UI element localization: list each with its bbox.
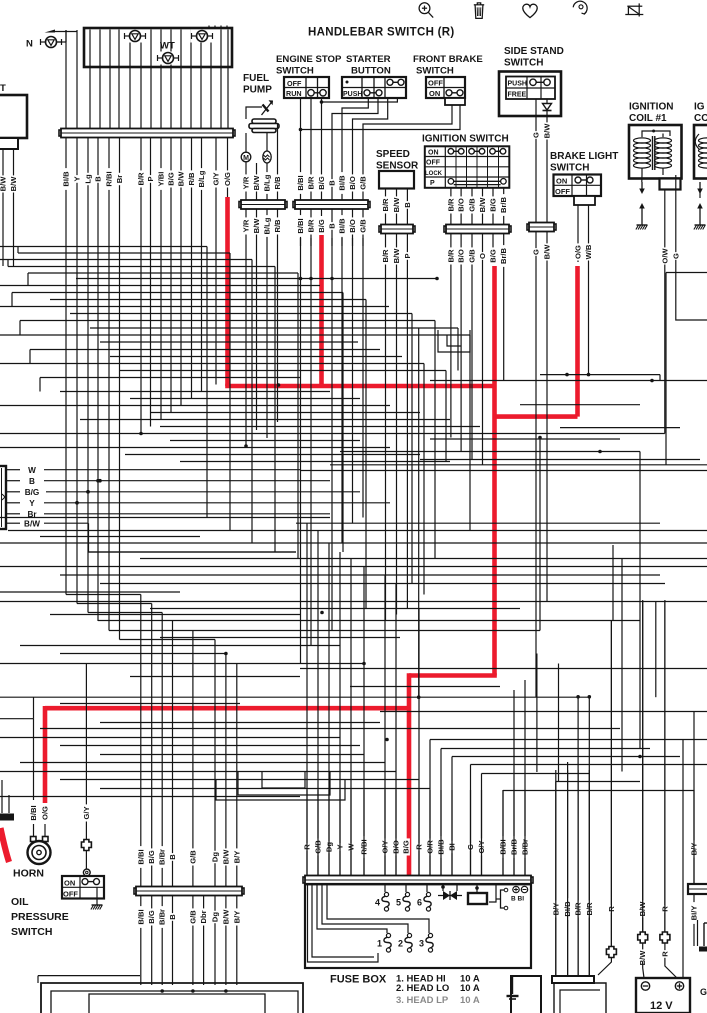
svg-text:B/W: B/W: [24, 519, 40, 528]
svg-text:Br/B: Br/B: [499, 247, 508, 264]
svg-text:B/G: B/G: [489, 249, 498, 263]
svg-text:B/O: B/O: [348, 176, 357, 190]
starter button box: [342, 77, 406, 98]
label B/G left: [25, 488, 40, 497]
wire B speed sensor: [406, 189, 408, 226]
svg-text:LOCK: LOCK: [425, 171, 443, 177]
svg-text:G/Y: G/Y: [212, 172, 221, 185]
wire cluster to connector: [190, 30, 192, 130]
bottom box outline 2: [51, 991, 298, 1013]
title HANDLEBAR SWITCH (R): [308, 27, 455, 39]
wire cluster to connector: [99, 30, 101, 130]
svg-text:B/O: B/O: [457, 249, 466, 263]
label B/O below bar: [348, 217, 357, 234]
label R battery below: [660, 950, 669, 958]
wire fusebox riser: [502, 791, 504, 876]
wire cb riser: [151, 604, 153, 811]
fusebox internal wire 10: [475, 884, 479, 893]
label O/W coil1: [660, 247, 669, 264]
wire mesh h: [160, 426, 480, 428]
svg-text:CO: CO: [694, 113, 707, 124]
junction dot: [98, 479, 102, 483]
wire mesh v g2: [150, 201, 152, 427]
wire B/W ign above: [482, 188, 484, 225]
label BI fusebox: [448, 841, 457, 853]
wire mesh v desc: [457, 328, 459, 371]
wire elbow left corner: [8, 247, 40, 392]
svg-text:B/Lg: B/Lg: [263, 174, 272, 191]
svg-text:IG: IG: [694, 102, 705, 113]
wire mesh v eg: [310, 238, 312, 646]
fuel pump body: [249, 119, 279, 133]
wire mesh v ss: [385, 268, 387, 621]
wire B/Y riser: [555, 782, 557, 977]
svg-text:BRAKE LIGHT: BRAKE LIGHT: [550, 151, 618, 162]
svg-text:B/R: B/R: [446, 198, 455, 212]
wire O/Y fusebox: [384, 790, 386, 876]
wire B/Br cb below: [161, 896, 163, 985]
wire cb riser: [192, 631, 194, 811]
wire mesh v ign: [460, 268, 462, 452]
svg-text:SWITCH: SWITCH: [276, 66, 314, 77]
label B/W cb above: [221, 848, 230, 865]
svg-text:O/G: O/G: [574, 245, 583, 259]
label P ss below: [403, 252, 412, 260]
wire G/B fusebox: [317, 790, 319, 876]
svg-text:OFF: OFF: [426, 160, 441, 167]
label Lg: [84, 173, 93, 185]
connector box left: [0, 95, 27, 149]
red wire B/G ignition vertical: [492, 266, 497, 676]
wire B/Br fusebox: [524, 790, 526, 876]
wire mesh v g2: [170, 201, 172, 413]
wire mesh v g2: [191, 201, 193, 399]
svg-text:G/B: G/B: [468, 198, 477, 212]
connector bar engine stop: [293, 200, 370, 209]
wire mesh h: [8, 266, 275, 268]
fusebox internal wire 6: [384, 884, 386, 892]
svg-text:B/R: B/R: [446, 249, 455, 263]
wire P ss below: [406, 234, 408, 268]
wire cluster to connector: [109, 30, 111, 130]
wire mesh v g2: [140, 201, 142, 434]
wire mesh h: [380, 711, 707, 713]
wire B/BI cb below: [140, 896, 142, 985]
fusebox internal wire 2: [312, 884, 374, 957]
wire mesh h: [300, 470, 707, 472]
wire mesh v G coil: [676, 290, 707, 320]
wire B/W fp: [256, 163, 258, 201]
svg-text:B/O: B/O: [348, 219, 357, 233]
wire mesh h: [77, 603, 152, 605]
wire B/G left bundle: [170, 138, 172, 201]
label HORN: [13, 868, 44, 880]
lamp turn-signal left: [124, 30, 147, 43]
wire frontbrake to G/B: [363, 104, 452, 201]
wire B/G ign above: [492, 188, 494, 225]
wire mesh v desc: [274, 267, 276, 553]
wire B/G ign below: [492, 234, 494, 262]
wire mesh h: [120, 370, 446, 372]
svg-text:P: P: [403, 253, 412, 258]
wire B/R right bottom: [577, 770, 579, 976]
label B/G fusebox: [402, 838, 411, 855]
red wire horizontal y386: [225, 384, 494, 389]
label B/O ign above: [457, 196, 466, 213]
wire G sidestand: [535, 116, 537, 223]
label B/Br cb below: [158, 906, 167, 928]
svg-text:B/W: B/W: [543, 123, 552, 139]
wire mesh h: [100, 722, 380, 724]
wire B cb above: [172, 810, 174, 887]
label B/Y right bottom: [551, 900, 560, 917]
wire cluster to connector: [170, 30, 172, 130]
label O/G: [223, 170, 232, 187]
svg-text:N: N: [26, 39, 33, 50]
svg-text:R/BI: R/BI: [105, 171, 114, 186]
wire mesh h: [30, 349, 380, 351]
connector bar right bottom: [552, 976, 594, 983]
wire mesh v low: [621, 559, 623, 772]
svg-text:3. HEAD LP: 3. HEAD LP: [396, 995, 449, 1006]
wire cluster to connector: [140, 30, 142, 130]
wire bottom U1: [238, 772, 330, 796]
svg-text:Dbr: Dbr: [199, 910, 208, 923]
wire B/G from left connector: [6, 491, 20, 493]
label B/R: [137, 170, 146, 187]
wire mesh v left: [65, 201, 67, 595]
svg-text:FRONT BRAKE: FRONT BRAKE: [413, 54, 483, 65]
ignition coil 2 label: [694, 102, 707, 125]
wire fusebox riser: [317, 531, 319, 876]
wire mesh v g2: [160, 201, 162, 420]
svg-text:O/G: O/G: [223, 172, 232, 186]
label B/G cb below: [147, 908, 156, 925]
wire O/R fusebox: [429, 790, 431, 876]
oil switch ground: [91, 899, 103, 910]
svg-text:Y/R: Y/R: [242, 219, 251, 232]
wire B/R ign below: [450, 234, 452, 268]
wire mesh h: [180, 461, 450, 463]
label P: [146, 175, 155, 183]
label B/G cb above: [147, 848, 156, 865]
label B/R below bar: [307, 217, 316, 234]
fuse box outline: [305, 884, 531, 968]
wire B below bar: [331, 210, 333, 247]
wire starter to B: [332, 98, 378, 201]
svg-text:Dg: Dg: [211, 852, 220, 862]
label B/G ign above: [489, 196, 498, 213]
wire mesh h: [0, 433, 665, 435]
svg-text:Y: Y: [29, 499, 35, 508]
wire mesh v desc: [297, 273, 299, 559]
svg-text:Br/B: Br/B: [499, 196, 508, 213]
svg-text:4: 4: [375, 898, 380, 908]
wire mesh v ss: [396, 268, 398, 615]
wire B/W from left connector: [6, 522, 20, 524]
side stand diode: [536, 99, 552, 116]
coil2 spark arrow down: [697, 182, 703, 194]
wire R battery: [660, 600, 670, 958]
red wire O/G left vertical: [225, 197, 230, 386]
wire mesh v fp: [266, 246, 268, 438]
wire P left bundle: [150, 138, 152, 201]
wire left outer 2: [76, 30, 78, 129]
wire B/BI horn stub: [33, 824, 35, 838]
wire mesh h: [300, 668, 707, 670]
svg-text:Y/BI: Y/BI: [157, 172, 166, 187]
svg-text:B/W: B/W: [392, 197, 401, 213]
wire Br/B ign above: [503, 188, 505, 225]
fuse 6: [417, 892, 431, 911]
label G/B cb above: [188, 848, 197, 865]
svg-text:STARTER: STARTER: [346, 54, 391, 65]
wire R fusebox: [418, 790, 420, 876]
instrument cluster box: [84, 28, 232, 67]
wire mesh h: [100, 754, 364, 756]
label R fusebox: [303, 843, 312, 851]
wire bottom U3: [262, 772, 305, 789]
wire B/W cb below: [225, 896, 227, 985]
svg-text:W/B: W/B: [584, 244, 593, 259]
label B/G: [167, 170, 176, 187]
label B/W ss below: [392, 247, 401, 264]
wire fusebox riser: [451, 757, 453, 876]
label B/BI cb above: [136, 846, 145, 868]
wire fusebox riser: [470, 765, 472, 876]
svg-text:BI/B: BI/B: [338, 218, 347, 234]
wire mesh h: [0, 771, 396, 773]
fuse 1: [377, 933, 391, 952]
wire stubs above cluster: [209, 26, 227, 30]
fuse 5: [396, 892, 410, 911]
label G/B above bar: [359, 174, 368, 191]
svg-text:G/B: G/B: [468, 249, 477, 263]
lamp WT: [157, 52, 180, 65]
wire BI/B fusebox: [440, 790, 442, 876]
wire B/O fusebox: [395, 790, 397, 876]
wire mesh h: [556, 781, 640, 783]
svg-text:HANDLEBAR SWITCH (R): HANDLEBAR SWITCH (R): [308, 27, 455, 39]
svg-text:B: B: [328, 180, 337, 186]
wire mesh v desc: [206, 247, 208, 518]
svg-text:G/B: G/B: [188, 910, 197, 924]
right edge connector bar: [688, 884, 707, 894]
wire mesh v eg: [362, 238, 364, 518]
oil switch terminal: [83, 869, 90, 876]
wire mesh h: [430, 380, 707, 382]
label Br left: [27, 510, 37, 519]
wire mesh v fp: [256, 246, 258, 430]
fusebox internal wire 1: [308, 884, 379, 962]
wire B/Lg left bundle: [201, 138, 203, 201]
wire starter to BI/B: [342, 98, 368, 201]
svg-text:O: O: [478, 253, 487, 259]
wire fusebox riser: [395, 584, 397, 876]
label G/B below bar: [359, 217, 368, 234]
connector bar speed sensor: [379, 225, 415, 234]
wire G/B ign above: [471, 188, 473, 225]
svg-text:G/B: G/B: [188, 850, 197, 864]
svg-text:OFF: OFF: [63, 889, 78, 898]
label Y/BI: [157, 168, 166, 190]
label G/B cb below: [188, 908, 197, 925]
svg-text:B/G: B/G: [317, 219, 326, 233]
wire W bus: [44, 469, 300, 471]
fuse 2: [398, 933, 412, 952]
svg-text:B/Lg: B/Lg: [263, 217, 272, 234]
wire Y/R below: [245, 210, 247, 247]
wire B/G bus: [46, 490, 360, 494]
wire mesh v ign: [503, 268, 505, 381]
junction dot: [385, 738, 389, 742]
svg-text:ON: ON: [429, 89, 440, 98]
wire mesh h: [666, 272, 707, 274]
wire mesh h: [540, 374, 660, 376]
front brake switch box: [426, 77, 465, 105]
svg-text:M: M: [243, 155, 249, 162]
label HEAD HI: [396, 974, 480, 985]
junction dot: [598, 450, 602, 454]
label STARTER BUTTON: [346, 54, 391, 77]
svg-text:B/W: B/W: [221, 909, 230, 925]
wire G coil1: [675, 175, 677, 290]
fusebox bracket: [501, 888, 508, 910]
svg-text:B: B: [328, 223, 337, 229]
label HEAD LO: [396, 983, 480, 994]
wire B/W to battery: [643, 962, 644, 978]
svg-text:G: G: [671, 253, 680, 259]
svg-text:Y/R: Y/R: [242, 176, 251, 189]
wire B/R right bottom: [588, 770, 590, 976]
label G below: [532, 248, 541, 256]
wire elbow ign B: [447, 335, 461, 346]
wire BI fusebox: [451, 790, 453, 876]
toolbar heart icon: [523, 4, 537, 17]
wire B/BI cb above: [140, 810, 142, 887]
wire B/W left bundle: [180, 138, 182, 201]
svg-text:SWITCH: SWITCH: [416, 66, 454, 77]
wire fusebox riser: [306, 523, 308, 875]
label Dg fusebox: [325, 841, 334, 853]
label Br/B fusebox: [510, 836, 519, 858]
red wire B/G engine vertical: [319, 235, 324, 386]
wire mesh h: [12, 292, 343, 294]
svg-text:B/R: B/R: [381, 249, 390, 263]
svg-text:PRESSURE: PRESSURE: [11, 911, 69, 923]
svg-text:B/Y: B/Y: [232, 911, 241, 924]
wire B/R left bundle: [140, 138, 142, 201]
wire B/Y right edge: [693, 790, 695, 884]
svg-text:PUSH: PUSH: [508, 81, 527, 88]
wire mesh h: [560, 427, 680, 429]
engine stop switch box: [284, 77, 329, 98]
wire B/Y cb above: [236, 810, 238, 887]
junction dot: [75, 501, 79, 505]
label G sidestand: [532, 131, 541, 139]
wire mesh v g2: [201, 201, 203, 392]
toolbar rotate icon: [573, 1, 587, 14]
svg-text:B/G: B/G: [147, 910, 156, 924]
wire mesh h: [66, 594, 141, 596]
wire R/BI left bundle: [108, 138, 110, 201]
wire B/BI es: [300, 98, 302, 201]
svg-text:5: 5: [396, 898, 401, 908]
connector bar left: [59, 129, 235, 138]
label Dg cb above: [211, 851, 220, 863]
wire coil2 down: [699, 190, 701, 199]
wire mesh v B/W ss: [546, 268, 548, 602]
svg-text:B/W: B/W: [221, 849, 230, 865]
wire fusebox riser: [339, 552, 341, 876]
svg-text:B/BI: B/BI: [136, 849, 145, 864]
svg-text:B/BI: B/BI: [29, 805, 38, 820]
svg-text:B/G: B/G: [147, 850, 156, 864]
fusebox internal wire 8: [426, 884, 428, 892]
label B/W: [177, 170, 186, 187]
wire mesh v g2: [180, 201, 182, 406]
label R fusebox: [415, 843, 424, 851]
svg-text:SIDE STAND: SIDE STAND: [504, 46, 564, 57]
wire fusebox riser: [481, 774, 483, 876]
label B/G ign below: [489, 247, 498, 264]
wire O/G brakelight: [577, 205, 579, 262]
label Br: [115, 173, 124, 185]
svg-text:G/B: G/B: [359, 219, 368, 233]
svg-text:B BI: B BI: [511, 896, 524, 903]
label B/Lg below: [263, 215, 272, 237]
wire cb riser: [236, 664, 238, 811]
label B/O fusebox: [392, 838, 401, 855]
wire B/W cb above: [225, 810, 227, 887]
wire B bus: [44, 479, 330, 483]
wire mesh h: [0, 405, 390, 407]
wire mesh v ign: [450, 268, 452, 438]
coil2 ground: [694, 203, 706, 230]
fuse box top bar: [303, 876, 533, 885]
label Y/R below: [242, 217, 251, 234]
junction dot: [139, 432, 143, 436]
wire mesh v fp: [245, 246, 247, 446]
wire B/W bus: [44, 523, 296, 552]
wire mesh h: [0, 334, 470, 336]
coil1 spark arrow up + ground: [636, 203, 648, 230]
label BI/B right bottom: [563, 898, 572, 920]
label B/BI above bar: [296, 172, 305, 194]
wire mesh v W/B bl: [587, 268, 591, 376]
wire R/B left bundle: [191, 138, 193, 201]
svg-text:ON: ON: [428, 149, 439, 156]
svg-text:PUSH: PUSH: [343, 91, 362, 98]
label W left: [28, 466, 36, 475]
wire mesh v desc: [639, 452, 641, 749]
label Y fusebox: [336, 843, 345, 851]
bottom box outline 3: [89, 994, 265, 1013]
wire B/W battery: [638, 600, 648, 962]
label B/W above: [252, 174, 261, 191]
svg-text:O/G: O/G: [41, 806, 50, 820]
wire cluster to connector: [227, 30, 229, 130]
wire mesh h: [350, 686, 500, 688]
svg-text:B/O: B/O: [457, 198, 466, 212]
junction dot: [224, 652, 228, 656]
wire cluster to connector: [150, 30, 152, 130]
label B/Lg: [197, 168, 206, 190]
fusebox internal wire 5: [327, 884, 429, 933]
label R/B above: [273, 174, 282, 191]
label Y/R above: [242, 174, 251, 191]
wire BI/B riser: [567, 762, 569, 976]
